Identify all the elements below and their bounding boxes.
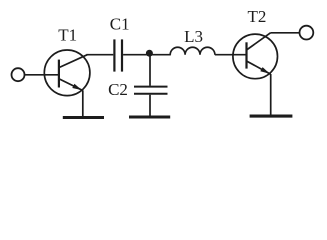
wire L3 to T2 base <box>215 54 247 56</box>
wire T1 collector to C1 <box>87 54 114 56</box>
ground under T1 <box>63 116 104 119</box>
output terminal <box>300 26 314 40</box>
ground under C2 <box>129 115 170 118</box>
capacitor C2 top plate <box>134 86 168 88</box>
svg-text:C2: C2 <box>108 80 128 99</box>
node A junction dot <box>146 50 153 57</box>
wire node A down to C2 <box>149 55 151 86</box>
transistor T1 emitter lead <box>59 79 83 91</box>
inductor L3 <box>170 47 215 54</box>
wire T2 emitter to ground <box>270 74 272 115</box>
transistor T2 collector lead <box>247 33 271 50</box>
svg-text:C1: C1 <box>110 14 130 33</box>
capacitor C1 right plate <box>121 39 123 71</box>
capacitor C1 left plate <box>113 39 115 71</box>
wire input terminal to T1 base <box>25 74 59 76</box>
transistor T1 base bar <box>58 60 60 88</box>
transistor T2 base bar <box>245 42 247 68</box>
svg-text:T2: T2 <box>248 7 267 26</box>
input terminal <box>12 68 25 81</box>
capacitor C2 bottom plate <box>134 93 168 95</box>
svg-text:L3: L3 <box>184 27 203 46</box>
wire T2 collector to output terminal <box>271 32 300 34</box>
wire node A to L3 <box>149 54 170 56</box>
ground under T2 <box>250 115 293 118</box>
svg-text:T1: T1 <box>58 25 77 44</box>
transistor T1 circle <box>44 50 90 96</box>
transistor T1 emitter arrow <box>72 84 82 90</box>
wire T1 emitter to ground <box>82 90 84 116</box>
wire C2 to ground <box>149 95 151 116</box>
transistor T2 emitter lead <box>247 61 271 74</box>
transistor T2 emitter arrow <box>260 67 270 74</box>
wire C1 to node A <box>123 54 149 56</box>
transistor T2 circle <box>233 34 278 79</box>
transistor T1 collector lead <box>59 55 87 68</box>
